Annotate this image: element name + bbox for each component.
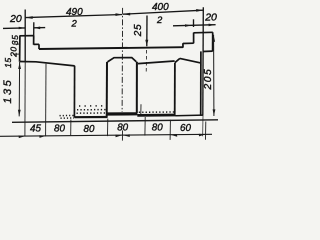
svg-text:45: 45: [30, 124, 41, 135]
svg-text:80: 80: [84, 124, 95, 135]
svg-text:2: 2: [71, 19, 78, 30]
svg-text:80: 80: [54, 124, 65, 135]
svg-text:205: 205: [203, 68, 214, 91]
svg-text:60: 60: [180, 123, 191, 134]
svg-text:80: 80: [152, 122, 163, 133]
svg-text:35: 35: [10, 35, 20, 46]
svg-text:15: 15: [3, 57, 13, 68]
svg-text:135: 135: [2, 78, 14, 104]
svg-text:490: 490: [66, 7, 83, 18]
svg-text:25: 25: [133, 24, 144, 38]
svg-text:20: 20: [204, 12, 217, 24]
svg-text:80: 80: [117, 123, 128, 134]
svg-text:400: 400: [152, 2, 169, 13]
svg-text:20: 20: [8, 46, 18, 58]
svg-text:2: 2: [156, 15, 163, 26]
svg-text:20: 20: [9, 13, 22, 25]
